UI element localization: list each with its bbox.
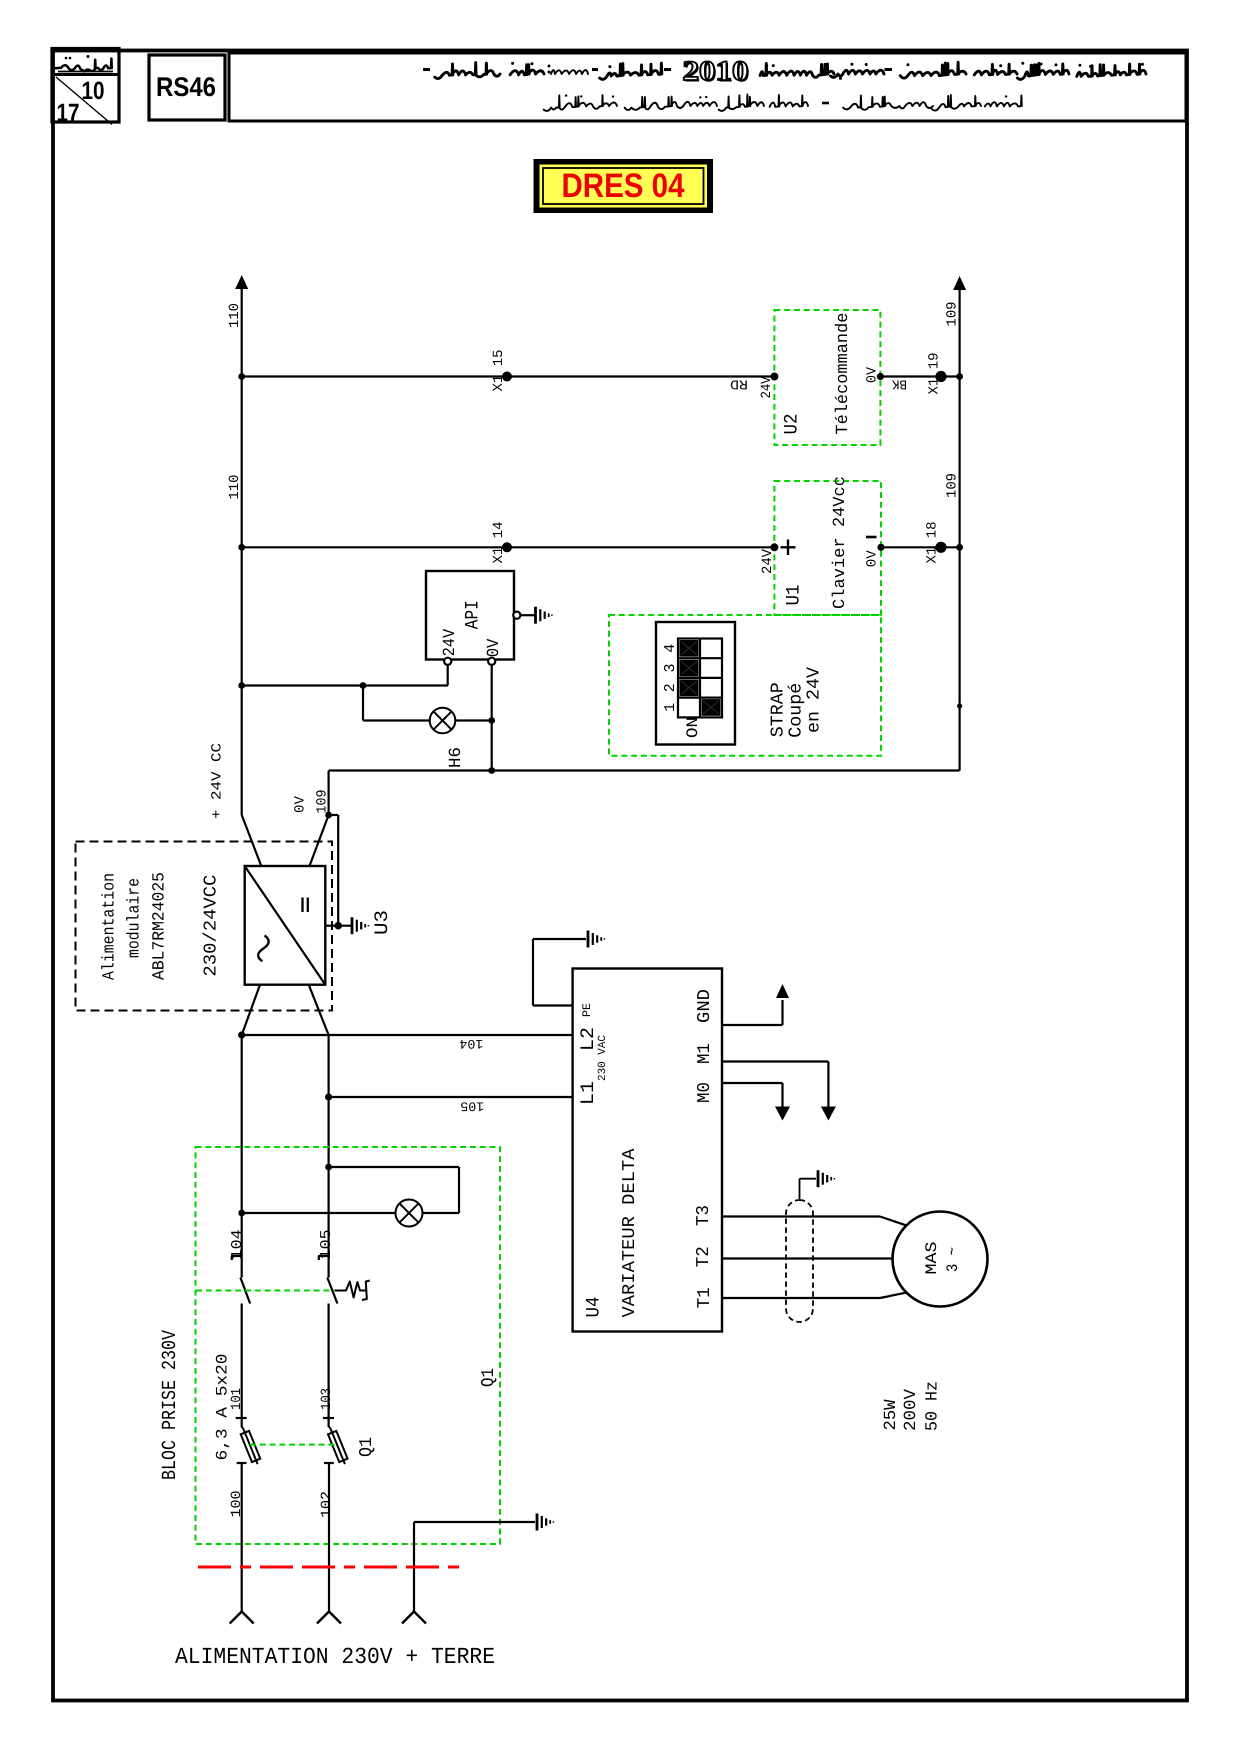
API box [426, 571, 514, 660]
M1 arrow [821, 1107, 836, 1121]
bloc prise earth symbol [537, 1514, 553, 1531]
shield ground symbol [818, 1170, 834, 1187]
svg-text:3 ~: 3 ~ [944, 1247, 962, 1272]
wire 110 to API 24V [242, 684, 448, 686]
wire slant into U3 input [242, 815, 262, 866]
Q1 mechanical link dashed [196, 1290, 334, 1292]
svg-text:103: 103 [319, 1388, 335, 1410]
svg-text:Q1: Q1 [479, 1368, 499, 1387]
svg-text:100: 100 [229, 1491, 245, 1518]
API ground symbol [536, 607, 552, 624]
svg-text:U4: U4 [583, 1297, 605, 1318]
DRES 04 banner yellow field [540, 165, 708, 208]
fuse link dashed green [250, 1444, 337, 1446]
U3 converter box [245, 866, 326, 985]
svg-text:U3: U3 [371, 910, 393, 935]
wire 104 to L2 [242, 1034, 573, 1036]
svg-text:110: 110 [227, 475, 243, 500]
svg-text:U1: U1 [783, 585, 805, 606]
Q1 pole 2 fixed contact tick [318, 1255, 329, 1257]
red phase separation line [198, 1566, 460, 1569]
wire U2 0V to bus [880, 375, 959, 377]
junction U3 ground [334, 922, 342, 930]
STRAP dashed box [609, 615, 881, 756]
svg-text:L2: L2 [577, 1027, 599, 1051]
junction 0V / U3 ground branch [325, 812, 332, 819]
svg-text:104: 104 [459, 1036, 483, 1051]
svg-text:STRAP: STRAP [768, 682, 788, 737]
terminal X1 18 [935, 542, 946, 553]
svg-text:6,3 A 5x20: 6,3 A 5x20 [214, 1354, 232, 1461]
svg-text:BLOC PRISE 230V: BLOC PRISE 230V [159, 1330, 182, 1480]
svg-text:U2: U2 [781, 414, 803, 435]
junction 105 [325, 1093, 332, 1100]
wire H6 to 0V [456, 719, 492, 721]
indicator lamp in bloc prise [396, 1200, 423, 1227]
wire down to H6 [362, 686, 364, 721]
wire 104 vertical [241, 1035, 243, 1278]
line2 dash [822, 102, 829, 105]
GND arrow [776, 984, 789, 998]
svg-text:24V: 24V [759, 376, 775, 399]
0V drop to U3 [328, 771, 330, 816]
svg-text:0V: 0V [865, 550, 881, 568]
M0 arrow [775, 1107, 790, 1121]
small junction mark on bus [957, 703, 962, 708]
U1 minus sign [866, 536, 877, 539]
svg-text:ALIMENTATION 230V + TERRE: ALIMENTATION 230V + TERRE [175, 1644, 495, 1670]
svg-text:230 VAC: 230 VAC [597, 1035, 609, 1081]
DRES 04 banner outer black frame [534, 159, 714, 213]
svg-text:0V: 0V [293, 795, 309, 813]
DRES 04 banner inner thin border [543, 168, 704, 204]
DIP grid outline [678, 639, 722, 718]
dash [592, 68, 598, 71]
junction H6/0V [488, 717, 495, 724]
svg-text:L1: L1 [577, 1081, 599, 1105]
wire 109 0V horizontal rail [329, 769, 960, 771]
svg-text:T1: T1 [695, 1287, 715, 1308]
fuse holder pole at x=241.7 [236, 1417, 247, 1419]
svg-text:M0: M0 [695, 1082, 715, 1103]
U3 AC sine symbol [258, 936, 269, 962]
Q1 bloc prise dashed box [196, 1147, 501, 1544]
wire 110 to U2 24V [242, 375, 775, 377]
wire U1 0V to bus [881, 546, 960, 548]
header arabic line 1 [423, 56, 1146, 89]
GND wire and arrow [722, 1024, 783, 1026]
svg-text:Coupé: Coupé [787, 683, 807, 738]
U2 telecommande dashed box [774, 310, 880, 445]
API 0V terminal circle [488, 658, 495, 665]
wire 104 below pole 1 [241, 1304, 243, 1428]
DIP filled cells [680, 640, 699, 657]
wire to H6 lamp [363, 719, 429, 721]
wire lamp to 104 [242, 1212, 396, 1214]
RS46 box [149, 55, 225, 120]
svg-text:1: 1 [662, 703, 679, 712]
junction on 0V bus [956, 373, 963, 380]
wire 105 below pole 2 [328, 1304, 330, 1428]
wire 110 24V vertical rail [241, 287, 243, 815]
U1 -0V terminal dot [877, 544, 884, 551]
branch to U3 ground terminal [329, 814, 339, 816]
wire API 0V down to 0V rail [491, 665, 493, 771]
junction on 24V rail [238, 373, 245, 380]
svg-text:MAS: MAS [923, 1242, 941, 1275]
page-number diagonal [56, 77, 112, 125]
API 24V terminal circle [444, 658, 451, 665]
svg-text:DRES 04: DRES 04 [562, 167, 685, 205]
svg-text:109: 109 [315, 790, 331, 814]
svg-text:M1: M1 [695, 1043, 715, 1064]
svg-text:API: API [462, 600, 484, 629]
lamp loop wires [329, 1166, 459, 1168]
svg-text:Télécommande: Télécommande [834, 313, 853, 435]
svg-text:50 Hz: 50 Hz [924, 1381, 943, 1431]
wire 110 to U1 +24V [242, 546, 775, 548]
Q1 pole 1 fixed contact tick [231, 1255, 242, 1257]
junction on 24V rail [238, 544, 245, 551]
svg-text:PE: PE [581, 1003, 594, 1017]
DIP switch outline [656, 622, 735, 745]
svg-text:GND: GND [695, 989, 715, 1023]
trailing dash [423, 68, 430, 71]
cable shield capsule [786, 1200, 813, 1322]
svg-text:3: 3 [662, 664, 679, 673]
API PE terminal circle [513, 612, 520, 619]
API ground wire [521, 614, 535, 616]
page-number box divider [54, 73, 118, 76]
svg-text:H6: H6 [447, 747, 466, 768]
wire 105 vertical [328, 1035, 330, 1278]
dash before الدورة [885, 68, 893, 71]
الصفحة underline [58, 71, 113, 73]
svg-text:230/24VCC: 230/24VCC [202, 874, 222, 976]
wire 109 0V vertical bus [958, 288, 960, 771]
junction lamp loop [325, 1164, 332, 1171]
svg-text:X1 19: X1 19 [927, 353, 943, 395]
shield ground wire [799, 1179, 801, 1199]
Q1 pole 1 blade [240, 1278, 250, 1304]
terminal X1 14 [502, 542, 512, 552]
svg-text:RD: RD [730, 376, 748, 391]
DIP grid inner lines [699, 639, 701, 718]
terminal X1 19 [935, 371, 946, 382]
svg-text:0V: 0V [485, 638, 504, 657]
PE earth symbol [588, 931, 604, 948]
U4 variateur box [573, 969, 722, 1332]
junction to H6 [360, 682, 367, 689]
svg-text:+ 24V CC: + 24V CC [210, 743, 226, 819]
PE wire to earth [533, 1004, 573, 1006]
slant wire 0V into U3 [310, 815, 329, 866]
U3 diagonal [245, 866, 326, 985]
U3 ground wire [325, 925, 351, 927]
supply connector chevron at x=241.7 [230, 1612, 254, 1624]
svg-text:10: 10 [82, 77, 105, 105]
svg-text:VARIATEUR DELTA: VARIATEUR DELTA [620, 1148, 640, 1317]
svg-text:modulaire: modulaire [126, 878, 145, 958]
svg-text:X1 15: X1 15 [491, 350, 507, 392]
terminal X1 15 [502, 372, 512, 382]
svg-text:Q1: Q1 [357, 1437, 377, 1457]
svg-text:17: 17 [57, 99, 80, 127]
U3 dashed enclosure [76, 842, 333, 1011]
junction 0V rail [488, 767, 495, 774]
junction on 0V bus [956, 544, 963, 551]
M0 wire and arrow [722, 1082, 783, 1084]
svg-text:T2: T2 [694, 1246, 714, 1267]
supply connector chevron at x=414 [402, 1612, 426, 1624]
svg-text:4: 4 [662, 644, 679, 653]
svg-text:Clavier 24Vcc: Clavier 24Vcc [831, 476, 850, 609]
M1 wire and arrow [722, 1060, 828, 1062]
wire 105 to L1 [329, 1096, 573, 1098]
dash after 2010 [664, 68, 671, 71]
svg-text:BK: BK [891, 376, 907, 391]
U3 output slants [242, 985, 260, 1035]
junction 104 [238, 1031, 245, 1038]
U1 +24V terminal dot [770, 543, 778, 551]
svg-text:109: 109 [945, 473, 961, 498]
svg-text:200V: 200V [902, 1388, 921, 1431]
page-number box [52, 49, 119, 123]
header arabic line 2 [544, 94, 1022, 111]
svg-text:RS46: RS46 [156, 72, 216, 102]
24V rail arrow head [235, 275, 248, 289]
svg-text:0V: 0V [865, 366, 881, 383]
motor MAS circle [893, 1212, 988, 1307]
riser to API 24V terminal [447, 665, 449, 686]
svg-text:105: 105 [460, 1098, 484, 1113]
U2 0V terminal dot [877, 373, 884, 380]
Q1 pole 2 blade [327, 1278, 337, 1304]
U2 24V terminal dot [770, 373, 778, 381]
svg-text:102: 102 [319, 1491, 335, 1518]
svg-text:en 24V: en 24V [805, 667, 825, 733]
svg-text:T3: T3 [694, 1205, 714, 1226]
svg-text:2: 2 [662, 683, 679, 692]
supply connector chevron at x=329 [317, 1612, 341, 1624]
svg-text:25W: 25W [882, 1399, 901, 1431]
U1 plus sign [781, 546, 796, 548]
U3 ground symbol [352, 917, 368, 934]
svg-text:X1 18: X1 18 [925, 522, 941, 564]
earth wire [413, 1522, 415, 1612]
fuse holder pole at x=329 [323, 1417, 334, 1419]
U1 clavier dashed box [774, 481, 881, 615]
svg-text:ABL7RM24025: ABL7RM24025 [151, 872, 170, 980]
lamp H6 [430, 708, 456, 734]
svg-text:110: 110 [227, 303, 243, 328]
svg-text:ON: ON [684, 717, 702, 738]
svg-text:Alimentation: Alimentation [101, 873, 120, 980]
svg-text:2010: 2010 [683, 56, 749, 87]
U3 DC symbol bars [301, 898, 303, 913]
الصفحة label [52, 59, 112, 72]
junction on 24V rail [238, 682, 245, 689]
exam header box [229, 53, 1186, 121]
motor wires T3 T2 T1 [722, 1215, 880, 1217]
0V rail arrow head [953, 276, 966, 290]
colon of مادة [548, 65, 551, 68]
Q1 thermal element zigzag [335, 1281, 370, 1301]
svg-text:X1 14: X1 14 [491, 522, 507, 564]
svg-text:24V: 24V [441, 628, 460, 656]
svg-text:24V: 24V [760, 548, 776, 574]
junction lamp/104 [238, 1210, 245, 1217]
svg-text:109: 109 [945, 302, 961, 327]
